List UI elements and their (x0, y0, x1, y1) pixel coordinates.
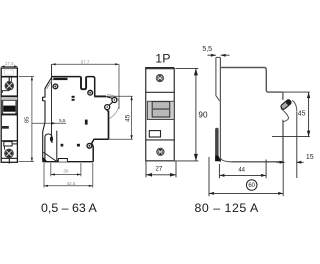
front view bottom cells (1, 157, 17, 159)
pole view top dark edge (145, 67, 174, 69)
svg-text:15: 15 (306, 154, 314, 161)
heavy view claw foot (215, 156, 221, 162)
heavy view front face (219, 57, 221, 161)
side view inner slant (47, 79, 53, 89)
svg-text:80 – 125 A: 80 – 125 A (195, 201, 259, 215)
heavy view edge below toggle (282, 120, 284, 162)
svg-text:27: 27 (155, 166, 163, 173)
side view right screw (88, 90, 93, 95)
side view toggle swing arc faint (107, 95, 119, 119)
dim 45 heavy (272, 92, 310, 137)
side view bottom screw (87, 143, 92, 148)
pole view knob mid band (153, 108, 170, 110)
side view claw foot (43, 157, 48, 162)
svg-text:0,5 – 63 A: 0,5 – 63 A (41, 201, 98, 215)
svg-text:1P: 1P (155, 52, 170, 66)
front view terminal line to edge (12, 143, 17, 145)
dim 45 side view (107, 96, 133, 139)
side view outline top (52, 76, 81, 78)
heavy view bottom edge (231, 161, 283, 163)
heavy view top face and step (220, 68, 283, 93)
front view toggle frame pillars (1, 101, 3, 116)
side view bottom slot (58, 159, 67, 162)
front view grey band (1, 97, 17, 100)
pole view bottom screw (157, 148, 164, 155)
pole view line2 (146, 139, 175, 141)
side view toggle plateau (94, 95, 106, 97)
front view grey band lower line (1, 99, 17, 102)
side view tall pip (85, 120, 88, 125)
side view toggle pivot screws (105, 98, 117, 110)
svg-text:90: 90 (198, 111, 208, 120)
heavy view edge above toggle (282, 92, 284, 100)
side view bottom right foot (92, 139, 109, 162)
dim 27 (146, 162, 176, 178)
front view wire to screw (4, 146, 6, 150)
svg-text:5,5: 5,5 (59, 118, 66, 123)
pole view top screw (156, 74, 163, 81)
svg-text:85: 85 (24, 117, 30, 123)
svg-text:I-ON: I-ON (6, 107, 13, 111)
side view bottom edge (43, 161, 93, 163)
side view top screw (53, 84, 58, 89)
dim 42.5 (44, 163, 93, 188)
front view divider top (8, 78, 10, 91)
svg-text:17,4: 17,4 (5, 61, 14, 66)
pole view toggle knob (152, 102, 170, 117)
pole view window (149, 131, 160, 137)
front view terminal box (4, 142, 12, 146)
side view top right corner (86, 77, 94, 97)
side view din claw tongue (45, 134, 52, 161)
side view U-notch (81, 77, 86, 90)
pole view line1 (146, 91, 175, 93)
front view band2 (1, 95, 17, 97)
front view band3 (1, 114, 17, 116)
dim 67.7 (52, 63, 119, 109)
pole view toggle recess (147, 101, 174, 119)
front view I-ON toggle (3, 106, 15, 112)
front view top screw (5, 81, 14, 90)
side view claw hatch (43, 152, 56, 161)
dim 17,4 (1, 65, 17, 67)
pole view outline (146, 69, 175, 161)
svg-text:30: 30 (63, 169, 69, 174)
dim 5,5 side view (32, 122, 66, 125)
side view outline left (43, 77, 52, 162)
heavy view toggle handle (280, 99, 292, 110)
dim 60 circled (209, 157, 283, 196)
svg-text:44: 44 (238, 168, 245, 174)
svg-text:45: 45 (124, 114, 131, 122)
side view toggle lever links (106, 97, 112, 99)
svg-text:42.5: 42.5 (67, 181, 76, 186)
side view top slot bar (53, 78, 67, 80)
svg-text:5,5: 5,5 (202, 46, 212, 53)
side view body right edge (108, 111, 110, 140)
heavy view bottom left curve (221, 158, 232, 162)
side view pip squares (61, 144, 64, 147)
side view vent slots (72, 96, 75, 98)
front view 0,5-63A outline (1, 68, 17, 162)
svg-text:45: 45 (298, 110, 306, 117)
front view band1 (1, 76, 17, 78)
front view bottom screw (5, 149, 14, 158)
svg-text:60: 60 (248, 183, 255, 189)
side view rail line bulb (50, 136, 53, 142)
dim 90 (175, 68, 199, 160)
dim 85 (19, 76, 34, 161)
svg-text:67.7: 67.7 (81, 59, 90, 64)
front view band4 (1, 140, 17, 141)
heavy view din claw (215, 128, 219, 157)
front view label mark (2, 126, 9, 129)
dim 44 (219, 160, 266, 179)
side view din groove right wall (57, 131, 60, 161)
front view top terminal faint recess (5, 70, 14, 75)
heavy view toggle housing arcs (292, 100, 297, 112)
dim 30 (51, 163, 81, 176)
heavy view front flange (216, 57, 220, 101)
side view rail plane line (51, 64, 53, 137)
front view wire step (2, 91, 9, 93)
